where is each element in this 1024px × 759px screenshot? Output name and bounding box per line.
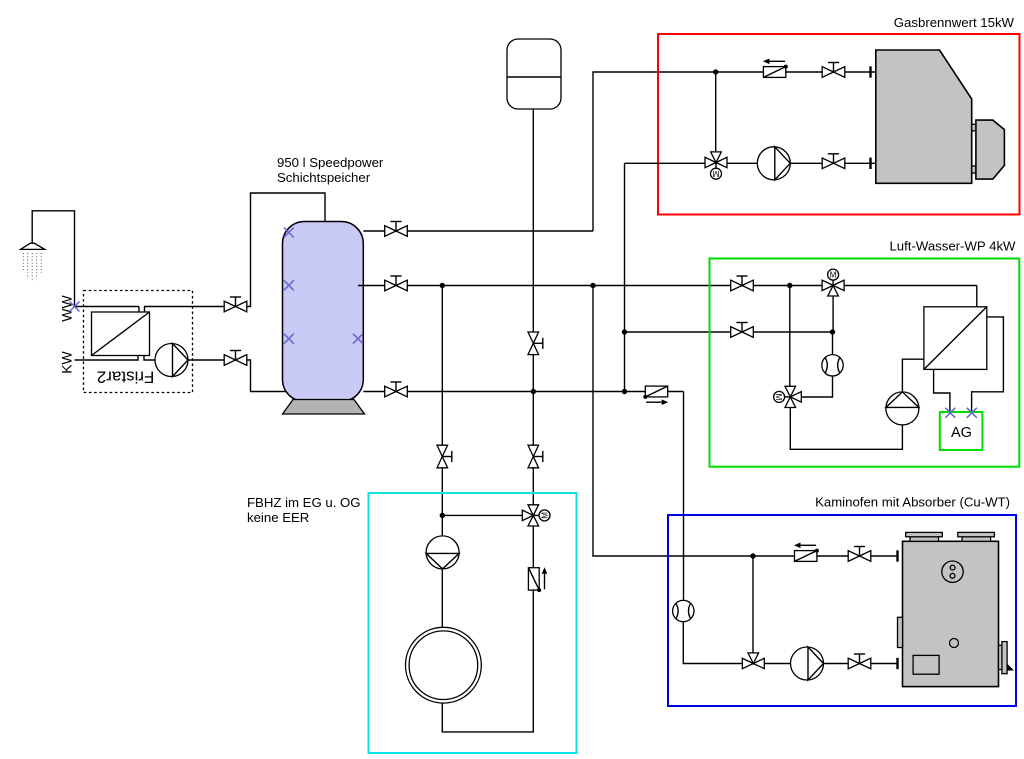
wire FBHZ mixer to check xyxy=(532,526,534,569)
wire boiler top junction down xyxy=(715,72,717,152)
shower water spray xyxy=(23,253,41,282)
wire Kaminofen junction down xyxy=(752,556,754,653)
stove left tab xyxy=(898,617,903,647)
svg-text:950 l Speedpower: 950 l Speedpower xyxy=(277,155,384,170)
wire riser Kaminofen supply xyxy=(593,286,898,557)
svg-text:Luft-Wasser-WP 4kW: Luft-Wasser-WP 4kW xyxy=(889,239,1016,254)
AG outdoor unit box xyxy=(940,412,983,450)
gas boiler body xyxy=(876,50,972,183)
valve tank bottom xyxy=(385,382,408,397)
valve tank top xyxy=(385,222,408,237)
node AG X left xyxy=(945,408,955,418)
stove control circle xyxy=(942,561,963,582)
svg-text:Gasbrennwert 15kW: Gasbrennwert 15kW xyxy=(894,15,1015,30)
wire FBHZ junction to mixer xyxy=(442,514,522,516)
valve expansion line xyxy=(528,332,543,355)
motor valve 3-way HP top xyxy=(822,269,844,296)
node junction pipe2/mixer stem xyxy=(830,329,835,334)
wire FBHZ pump to circuit xyxy=(441,569,443,628)
svg-text:M: M xyxy=(540,512,549,519)
check valve tank bottom pipe xyxy=(643,386,668,405)
wire Kaminofen bottom pipe xyxy=(742,663,898,665)
svg-text:Schichtspeicher: Schichtspeicher xyxy=(277,170,371,185)
node junction bottom/boiler riser xyxy=(622,389,627,394)
group box FBHZ xyxy=(369,493,577,753)
mixing valve 3-way FBHZ xyxy=(522,505,550,526)
heat exchanger Fristar2 xyxy=(92,312,150,356)
wire HP 3way down to bottom xyxy=(790,408,902,450)
wire WW line xyxy=(75,306,140,308)
heat pump evaporator HX xyxy=(924,307,987,370)
svg-text:M: M xyxy=(712,169,719,178)
valve HP supply xyxy=(731,276,754,291)
group box Luft-Wasser-WP 4kW xyxy=(710,259,1020,467)
valve boiler supply xyxy=(822,63,845,78)
gas boiler side attachment xyxy=(972,120,1005,179)
wire riser gas boiler return xyxy=(624,163,626,391)
valve boiler return xyxy=(822,154,845,169)
wire junction to HP mixer xyxy=(789,286,791,387)
stove chimney 2 xyxy=(958,532,995,541)
valve HP return xyxy=(731,323,754,338)
pump boiler circuit xyxy=(757,147,790,180)
wire heat exchanger to WW out xyxy=(145,193,326,312)
svg-text:Kaminofen mit Absorber (Cu-WT): Kaminofen mit Absorber (Cu-WT) xyxy=(815,495,1010,510)
node junction boiler top xyxy=(713,69,718,74)
pump FBHZ xyxy=(426,536,459,569)
node boiler return tick xyxy=(869,158,871,169)
valve FBHZ riser right xyxy=(528,445,543,468)
valve Kaminofen return xyxy=(848,654,871,669)
node boiler supply tick xyxy=(869,66,871,77)
stove knob circle xyxy=(950,639,959,648)
node junction HP supply xyxy=(787,283,792,288)
wire FBHZ junction to pump xyxy=(441,515,443,536)
check valve Kaminofen supply xyxy=(794,543,819,562)
wire FBHZ return loop xyxy=(442,589,533,732)
wire KW line xyxy=(75,356,139,361)
wire evaporator to AG left xyxy=(934,369,950,412)
tank 950l Schichtspeicher xyxy=(283,222,364,402)
wire tank top flow xyxy=(363,230,593,232)
node junction FBHZ xyxy=(440,513,445,518)
node junction bottom/vessel riser xyxy=(531,389,536,394)
check valve FBHZ xyxy=(528,567,547,592)
wire riser to gas boiler xyxy=(593,72,876,231)
stove body xyxy=(903,541,999,686)
svg-text:AG: AG xyxy=(951,425,972,441)
wire tank bottom pipe xyxy=(363,391,683,393)
node AG X right xyxy=(967,408,977,418)
node tank X low left xyxy=(284,334,294,344)
wire WW to heat exchanger xyxy=(138,307,140,313)
stove door xyxy=(913,655,939,674)
wire boiler return pipe xyxy=(625,162,876,164)
node junction pipe2/boiler riser xyxy=(622,329,627,334)
valve FBHZ riser left xyxy=(437,445,452,468)
svg-text:KW: KW xyxy=(58,350,74,373)
wire HP mixer stem xyxy=(832,296,834,332)
svg-text:FBHZ im EG u. OG: FBHZ im EG u. OG xyxy=(247,495,361,510)
node Kaminofen supply tick xyxy=(896,550,898,561)
flow sensor Kaminofen xyxy=(673,600,694,621)
valve WW xyxy=(224,297,247,312)
wire to HP heat exchanger top xyxy=(976,286,978,308)
node junction pipe-mid/FBHZ xyxy=(440,283,445,288)
wire sensor to Kaminofen bottom xyxy=(683,622,742,664)
svg-text:Fristar2: Fristar2 xyxy=(97,368,155,387)
pump HP circuit xyxy=(886,392,919,425)
node tank X low right xyxy=(353,334,363,344)
mixing valve 3-way Kaminofen xyxy=(742,653,764,669)
heat pump outdoor coil back panel xyxy=(972,317,1004,413)
wire pipe2 (HP return) xyxy=(625,331,833,333)
heating circuit FBHZ xyxy=(406,627,482,703)
mixing valve 3-way HP xyxy=(774,386,802,407)
wire stem to flow sensor xyxy=(832,332,834,355)
wire expansion vessel riser xyxy=(532,109,534,505)
wire HP pump to evaporator xyxy=(902,359,924,392)
stove right attachment xyxy=(999,642,1015,674)
wire sensor to 3way xyxy=(801,376,833,397)
svg-text:M: M xyxy=(774,394,783,401)
pump Fristar2 xyxy=(155,344,188,377)
tank base xyxy=(283,400,365,415)
svg-text:keine EER: keine EER xyxy=(247,510,309,525)
valve Kaminofen supply xyxy=(848,547,871,562)
node Kaminofen return tick xyxy=(896,658,898,669)
wire pump to KW valve xyxy=(188,360,288,392)
valve tank mid xyxy=(385,276,408,291)
fresh water station Fristar2 dashed box xyxy=(84,291,193,393)
group box Kaminofen xyxy=(668,515,1016,706)
wire pipe middle (tank mid) xyxy=(358,285,977,287)
mixing valve 3-way boiler xyxy=(705,152,727,179)
expansion vessel xyxy=(507,39,561,109)
shower head xyxy=(21,243,45,249)
pump Kaminofen circuit xyxy=(791,647,824,680)
svg-text:M: M xyxy=(830,271,837,280)
group box Gasbrennwert 15kW xyxy=(658,34,1020,215)
wire shower supply xyxy=(32,211,74,307)
flow sensor HP xyxy=(822,355,843,376)
node tank X mid left xyxy=(284,280,294,290)
wire down to Kaminofen sensor xyxy=(683,392,685,601)
wire heat exchanger to pump xyxy=(144,356,156,361)
stove chimney 1 xyxy=(906,532,943,541)
node WW connection X xyxy=(70,302,80,312)
node tank X top left xyxy=(284,228,294,238)
node junction Kaminofen supply xyxy=(750,553,755,558)
node junction pipe-mid/Kaminofen riser xyxy=(590,283,595,288)
valve KW xyxy=(224,351,247,366)
check valve boiler supply xyxy=(763,59,788,78)
wire riser FBHZ left xyxy=(441,286,443,516)
